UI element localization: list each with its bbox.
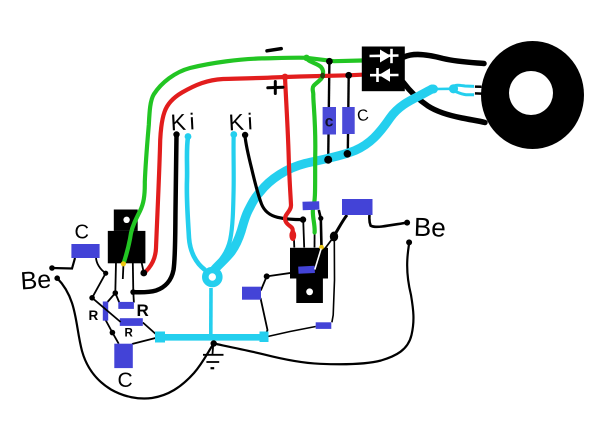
- wire cyan vertical from ring to bus: [209, 288, 213, 335]
- wire stub black to toroid lower: [475, 92, 482, 95]
- label minus: [267, 49, 281, 51]
- red wire end blob: [289, 230, 296, 241]
- wire node D to R2 left end: [115, 293, 119, 303]
- capacitor C3 black lead from red rail to cyan wire: [347, 75, 350, 154]
- yellow solder dot on Q1: [121, 261, 126, 266]
- wire node D to R1 top: [108, 293, 116, 302]
- node on R4 right lead: [318, 216, 323, 221]
- transistor Q2 body: [290, 248, 328, 303]
- node Be-left upper dot: [49, 265, 55, 271]
- cyan fork ring node: [205, 270, 219, 284]
- svg-text:C: C: [75, 222, 89, 244]
- red junction blob: [282, 74, 289, 81]
- wire blob node down to R8 right end: [332, 238, 335, 322]
- wire C1 bottom to node A: [96, 257, 106, 273]
- cyan ground bus: [159, 334, 264, 341]
- wire node B through R1 to R3 left: [92, 298, 121, 322]
- wire node F to R6 left end: [267, 272, 299, 277]
- svg-text:Be: Be: [413, 212, 446, 243]
- node Be-right upper dot: [404, 220, 410, 226]
- wire blob node to Q2 top right corner: [325, 237, 334, 249]
- transistor Q1 body: [108, 210, 146, 264]
- cyan cap dot right: [230, 131, 237, 138]
- wire node E to R2 right end: [132, 292, 135, 302]
- resistor R7 mid-right blue: [242, 287, 261, 300]
- wire green vertical drop to Q2: [307, 58, 324, 233]
- node A: [103, 271, 108, 276]
- wire Q1 leg1 to node D: [114, 262, 117, 293]
- svg-text:R: R: [89, 308, 99, 323]
- node cap C2 to cyan: [324, 156, 332, 164]
- wire black bottom from rectifier to toroid: [403, 82, 485, 123]
- node B: [89, 295, 95, 301]
- wire cyan thick from fork circle to toroid connector: [215, 89, 433, 270]
- node Be-right lower dot: [406, 239, 412, 245]
- wire R5 bottom-right jog to Be-right dot: [369, 215, 407, 227]
- wire R1 bottom to node C to capacitor C4: [105, 318, 119, 344]
- resistor R4 small blue above Q2: [302, 201, 319, 210]
- cyan connector fork at toroid: [429, 84, 474, 94]
- node below R4: [300, 216, 306, 222]
- cyan bus right end cap: [260, 332, 269, 343]
- cyan bus left end cap: [155, 332, 165, 343]
- wire cyan fork left arm from Ki-left: [187, 137, 205, 270]
- wire node R4 down to Q2 top: [303, 220, 304, 248]
- node Ki-left dot: [173, 131, 179, 137]
- wire R8 left end to cyan bus right cap: [266, 327, 316, 338]
- svg-text:R: R: [137, 301, 149, 320]
- wire red main rail and left drop: [144, 75, 362, 273]
- wire R4 right end down to Q2 yellow dot: [319, 210, 322, 248]
- svg-text:Be: Be: [20, 265, 52, 295]
- wire black from Ki-left down to Q1 leg E: [133, 135, 176, 292]
- node C: [110, 330, 116, 336]
- wire R5 bottom-left to blob node: [334, 215, 347, 237]
- node on red rail: [345, 72, 352, 79]
- node ground dot: [211, 340, 217, 346]
- svg-text:c: c: [325, 114, 334, 131]
- yellow solder dot on Q2: [319, 245, 324, 250]
- node cap C3 to cyan: [344, 150, 352, 158]
- capacitor C2 black lead from green rail to cyan wire: [328, 61, 329, 159]
- wire node F to R7 right end: [261, 276, 267, 290]
- wire black top from rectifier to toroid: [404, 54, 484, 63]
- svg-text:C: C: [356, 107, 370, 125]
- resistor R2 horizontal blue: [118, 302, 134, 309]
- wire stub black to toroid upper: [475, 85, 482, 88]
- wire red blob lead to Q2: [293, 240, 295, 248]
- node F left of R6: [264, 273, 270, 279]
- svg-text:Ki: Ki: [228, 108, 257, 135]
- node on green rail: [326, 58, 333, 65]
- capacitor C2 body: [323, 107, 336, 135]
- blob node right of Q2: [330, 232, 338, 242]
- wire C4 top right to cyan bus left cap: [132, 338, 158, 345]
- wire green lead to Q2: [314, 233, 316, 248]
- node D: [113, 290, 119, 296]
- wire cyan fork right arm from Ki-right: [217, 135, 234, 265]
- node red end: [140, 270, 147, 277]
- wire Q1 leg4 to red wire end dot: [142, 262, 144, 273]
- wire node A to node B: [92, 273, 106, 298]
- wire R3 right end to cyan bus left cap: [143, 323, 158, 337]
- wire R7 bottom to cyan bus right cap: [261, 298, 268, 336]
- wire Q1 leg3 to node E: [132, 262, 135, 292]
- capacitor C1 (left, blue): [71, 244, 99, 258]
- resistor R6 blue on Q2: [298, 266, 315, 274]
- toroid transformer T1: [481, 41, 584, 149]
- svg-text:R: R: [125, 328, 134, 340]
- capacitor C3 body: [342, 107, 355, 134]
- wire green main rail and left drop through Q1: [124, 58, 363, 264]
- wire long loop from Be-left down around to ground: [57, 278, 214, 398]
- resistor R5 big blue near Be-right: [342, 199, 373, 215]
- label plus: [268, 82, 283, 94]
- node Ki-right dot: [242, 132, 248, 138]
- node Be-left lower dot: [54, 275, 60, 281]
- wire long loop from ground to Be-right: [214, 244, 414, 365]
- wire black from Ki-right down to node below R4: [245, 136, 303, 220]
- bridge rectifier D1: [362, 47, 405, 92]
- wire red vertical drop to Q2: [285, 77, 293, 238]
- green junction blob: [303, 55, 309, 61]
- resistor R3 horizontal wide blue: [120, 318, 143, 326]
- wire Q1 middle lead: [122, 263, 125, 279]
- svg-text:Ki: Ki: [170, 108, 199, 135]
- dark overlap patch green over red: [320, 73, 325, 79]
- ground symbol: [203, 345, 224, 368]
- cyan cap dot left: [185, 133, 192, 140]
- white line from R6 to yellow dot over Q2 body: [315, 249, 321, 270]
- wire from Be-left dot to capacitor C1: [52, 258, 75, 269]
- capacitor C4 body (bottom): [114, 344, 133, 368]
- resistor R8 small bottom blue: [316, 322, 332, 329]
- svg-text:C: C: [118, 369, 133, 392]
- node E: [130, 289, 136, 295]
- resistor R1 vertical blue: [103, 302, 108, 321]
